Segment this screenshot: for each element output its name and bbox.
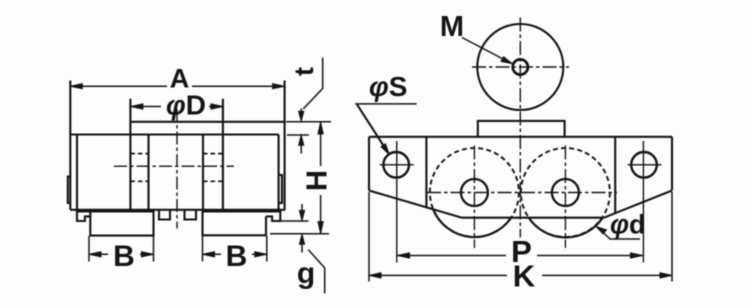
B right extension lines [203,236,267,262]
body left outer edge (also A extension line) [69,81,71,210]
g lower arrow (up) [301,240,303,253]
svg-text:φd: φd [610,210,646,240]
arrow B-right left [203,252,215,257]
arrow B-left right [142,252,154,257]
dimension phiD line [131,106,223,108]
right step tab [266,210,280,221]
plate bottom edge [462,217,604,219]
plate right edge [671,137,673,191]
g upper arrow (down) [301,204,303,215]
H bottom extension line (shared with g) [270,233,329,235]
right side tab [279,175,282,203]
middle tab 2 [185,210,197,220]
horizontal centerline left view [114,165,234,167]
plate left slant edge [369,191,462,218]
left roller bottom solid arc [433,209,511,237]
B right dimension line [203,253,267,255]
B left extension lines [89,236,154,262]
inner vertical line left [425,137,427,208]
arrow A right [273,84,285,89]
arrow B-left left [89,252,101,257]
right hole vertical centerline / P extension right [642,141,644,263]
plate left edge [368,137,370,191]
body top edge [70,133,278,135]
svg-text:H: H [302,170,334,191]
inner vertical line right [614,137,616,213]
wheel hub circle [513,59,528,74]
hidden hole line upper left [130,153,148,155]
t lower arrow (up) [300,141,302,154]
body right outer edge (also A extension line) [284,81,286,211]
H dimension line [320,122,322,233]
support block [478,121,565,137]
right foot [203,210,267,236]
g leader line [308,250,324,294]
hub outer line left (also phiD extension) [129,99,131,210]
t top extension line (shared with H top) [286,121,331,123]
svg-text:t: t [289,67,319,76]
right roller dashed circle [521,148,610,237]
rollers horizontal centerline [427,192,617,194]
main vertical centerline [519,18,521,238]
vertical centerline left view [176,109,178,229]
body left inner plate line [76,135,78,210]
arrow B-right right [255,252,267,257]
hidden hole line lower left [130,180,148,182]
arrow phiD right [211,104,223,109]
phiS underline [355,103,417,105]
middle tab 1 [159,210,170,220]
arrow K left [369,273,381,278]
right hole horizontal centerline [628,164,662,166]
arrow P right [631,253,643,258]
svg-text:M: M [440,11,464,43]
top plate (thickness t) [130,121,285,123]
plate top edge [369,136,672,138]
left roller dashed circle [430,148,519,237]
phiS leader arrowhead [381,144,390,155]
svg-text:φD: φD [166,90,206,121]
svg-text:B: B [226,240,248,273]
left side tab [68,177,71,203]
phid leader line [601,231,640,240]
phiS leader line [357,104,385,148]
arrow phiD left [131,104,143,109]
hidden hole line upper right [203,153,223,155]
K extension left [368,192,370,282]
K extension right [671,192,673,282]
M leader line [462,38,505,61]
phiS hole vertical centerline / P extension left [396,141,398,263]
arrow H top [318,122,323,134]
plate right slant edge [604,191,672,218]
t bottom extension line [287,134,309,136]
left foot [90,210,153,236]
svg-text:g: g [297,257,315,290]
right hole [631,152,657,178]
svg-text:K: K [513,259,536,294]
body right inner plate line [278,135,280,210]
hub outer line right (also phiD extension) [222,99,224,210]
hidden hole line lower right [203,180,223,182]
arrow A left [70,84,82,89]
dimension A line [70,85,284,87]
svg-text:B: B [113,240,135,273]
arrow K right [660,273,672,278]
g top extension line [281,220,309,222]
t leader line [303,58,322,109]
right foot top line [203,210,281,212]
right roller bottom solid arc [529,218,603,238]
left small step under body [77,210,90,221]
hub inner line left [147,135,149,210]
K dimension line [369,274,672,276]
left roller shaft circle [461,179,488,206]
phid leader arrowhead [596,227,607,234]
hub inner line right [202,135,204,210]
B left dimension line [89,253,154,255]
phiS hole [383,152,409,178]
right roller vertical centerline [564,146,566,249]
wheel M circle [477,24,563,110]
wheel horizontal centerline [472,66,569,68]
body bottom edge [70,209,285,211]
right roller shaft circle [552,179,579,206]
t upper arrow (down) [300,109,302,117]
left foot top line [78,210,154,212]
left roller vertical centerline [473,146,475,249]
arrow P left [398,253,410,258]
phiS hole horizontal centerline [380,164,414,166]
M leader arrowhead [501,57,513,64]
arrow H bottom [318,222,323,234]
svg-text:φS: φS [369,71,407,102]
P dimension line [398,255,643,257]
